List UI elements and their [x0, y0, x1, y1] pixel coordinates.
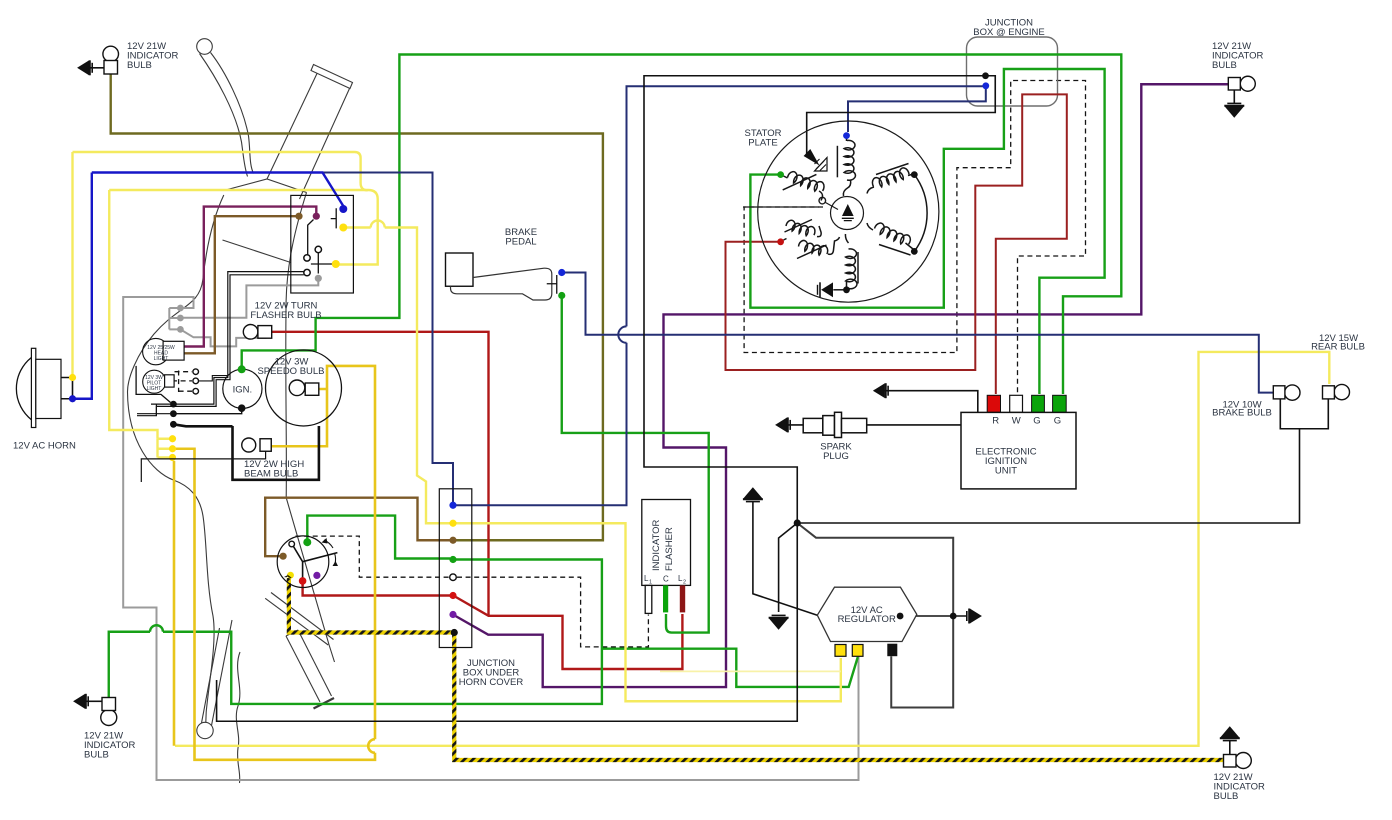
- svg-text:1: 1: [649, 580, 652, 586]
- svg-text:PEDAL: PEDAL: [505, 237, 536, 248]
- svg-text:FLASHER: FLASHER: [664, 527, 675, 571]
- svg-text:HORN COVER: HORN COVER: [459, 677, 524, 688]
- svg-text:REGULATOR: REGULATOR: [838, 614, 896, 625]
- svg-text:BRAKE BULB: BRAKE BULB: [1212, 408, 1272, 419]
- svg-text:W: W: [1012, 416, 1021, 427]
- svg-text:REAR BULB: REAR BULB: [1311, 342, 1365, 353]
- svg-text:G: G: [1033, 416, 1040, 427]
- svg-text:R: R: [992, 416, 999, 427]
- svg-text:BULB: BULB: [1212, 60, 1237, 71]
- svg-text:BULB: BULB: [84, 750, 109, 761]
- svg-text:PLATE: PLATE: [748, 138, 777, 149]
- svg-text:C: C: [663, 575, 669, 584]
- svg-text:BULB: BULB: [127, 60, 152, 71]
- svg-text:FLASHER BULB: FLASHER BULB: [250, 310, 321, 321]
- svg-text:12V AC HORN: 12V AC HORN: [13, 441, 76, 452]
- svg-text:BEAM BULB: BEAM BULB: [244, 469, 298, 480]
- svg-text:LIGHT: LIGHT: [147, 386, 162, 392]
- svg-text:PLUG: PLUG: [823, 451, 849, 462]
- svg-text:G: G: [1054, 416, 1061, 427]
- svg-text:INDICATOR: INDICATOR: [651, 519, 662, 571]
- svg-text:BOX @ ENGINE: BOX @ ENGINE: [973, 27, 1044, 38]
- svg-text:IGN.: IGN.: [233, 385, 253, 396]
- svg-text:BULB: BULB: [1214, 791, 1239, 802]
- svg-text:UNIT: UNIT: [995, 466, 1017, 477]
- svg-text:2: 2: [683, 580, 686, 586]
- svg-text:SPEEDO BULB: SPEEDO BULB: [257, 366, 324, 377]
- svg-text:LIGHT: LIGHT: [154, 356, 169, 362]
